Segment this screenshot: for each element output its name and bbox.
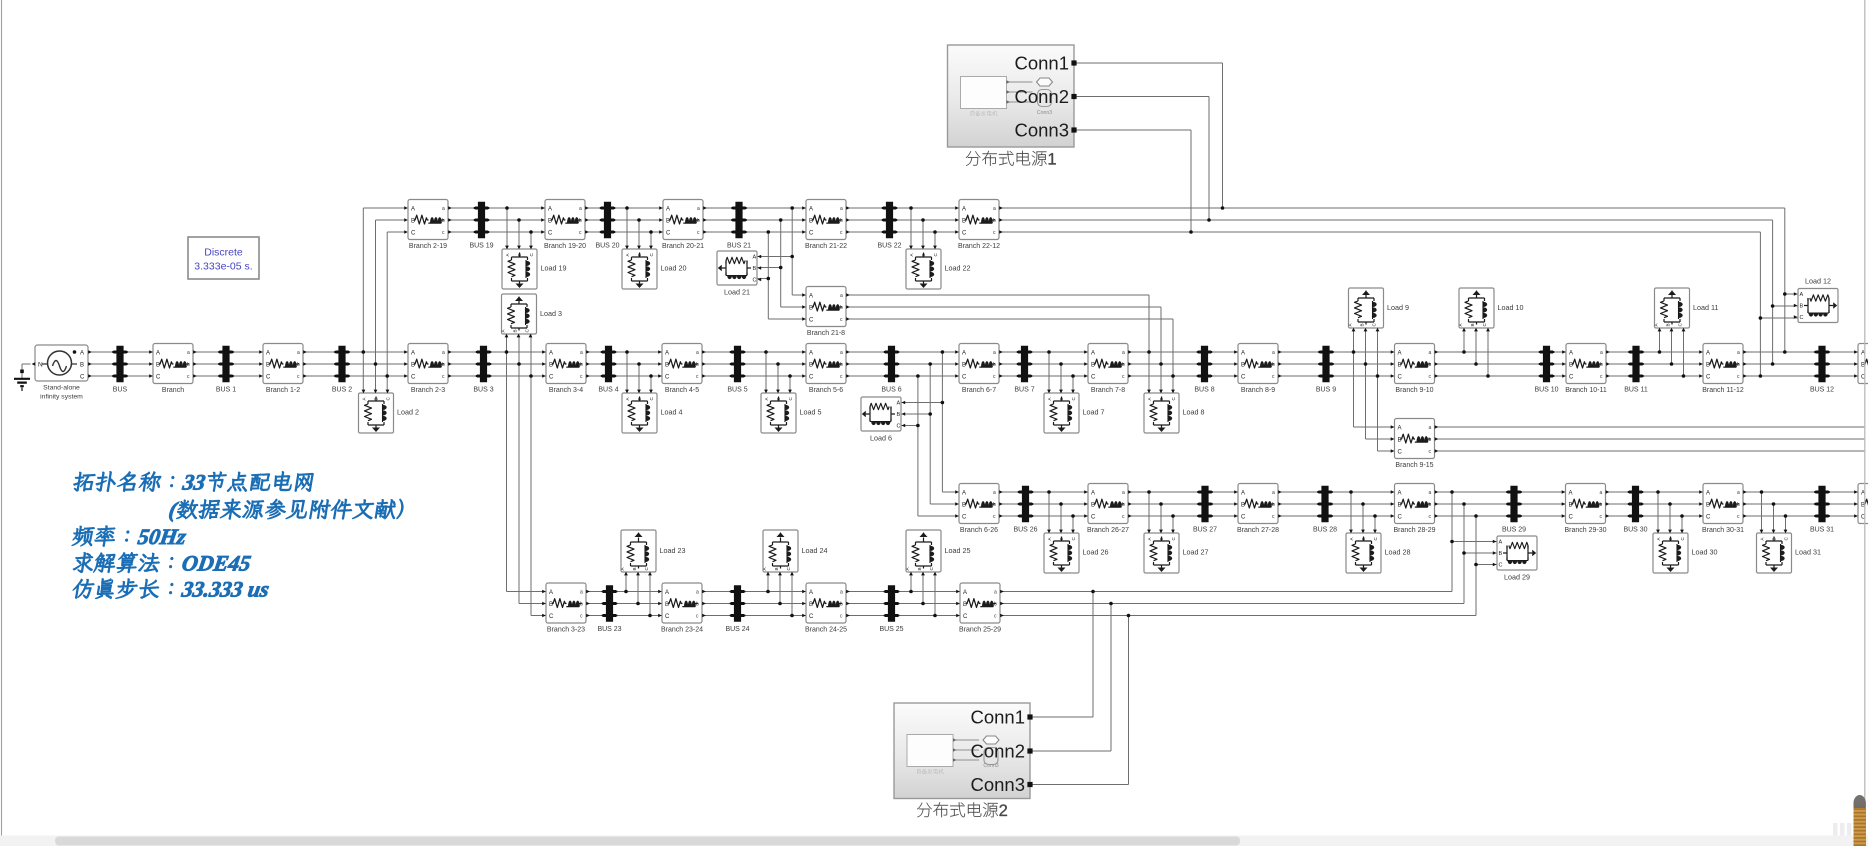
svg-text:A: A [809, 351, 813, 357]
svg-text:A: A [666, 207, 670, 213]
svg-text:A: A [1398, 426, 1402, 432]
svg-text:b: b [697, 218, 700, 224]
svg-text:A: A [962, 207, 966, 213]
svg-text:C: C [1398, 450, 1403, 456]
svg-text:BUS 30: BUS 30 [1623, 526, 1647, 533]
svg-text:Load 7: Load 7 [1083, 408, 1105, 417]
svg-text:A: A [809, 590, 813, 596]
svg-text:A: A [1241, 491, 1245, 497]
svg-text:Load 25: Load 25 [945, 546, 971, 555]
svg-text:b: b [580, 362, 583, 368]
svg-text:a: a [1429, 350, 1432, 356]
svg-text:B: B [80, 363, 84, 369]
svg-text:Load 29: Load 29 [1504, 573, 1530, 582]
svg-text:A: A [1706, 351, 1710, 357]
svg-text:B: B [1800, 304, 1804, 310]
svg-text:A: A [962, 351, 966, 357]
svg-text:Load 26: Load 26 [1083, 548, 1109, 557]
svg-text:Load 19: Load 19 [541, 264, 567, 273]
svg-text:A: A [809, 294, 813, 300]
svg-text:B: B [917, 567, 922, 570]
svg-text:a: a [840, 293, 843, 299]
svg-text:3.333e-05 s.: 3.333e-05 s. [194, 261, 252, 273]
svg-text:b: b [1272, 362, 1275, 368]
svg-text:A: A [897, 401, 901, 407]
svg-text:A: A [1706, 491, 1710, 497]
svg-text:Conn3: Conn3 [1037, 110, 1052, 116]
svg-text:Branch 26-27: Branch 26-27 [1087, 527, 1129, 534]
svg-text:Load 10: Load 10 [1498, 303, 1524, 312]
svg-text:b: b [442, 362, 445, 368]
svg-text:C: C [809, 231, 814, 237]
svg-text:Branch 9-10: Branch 9-10 [1395, 387, 1433, 394]
svg-text:A: A [1499, 540, 1503, 546]
svg-text:A: A [1569, 351, 1573, 357]
svg-text:b: b [696, 362, 699, 368]
svg-text:A: A [1800, 292, 1804, 298]
svg-text:A: A [1091, 351, 1095, 357]
svg-text:B: B [774, 567, 779, 570]
svg-text:Branch 3-4: Branch 3-4 [549, 387, 583, 394]
svg-text:C: C [809, 375, 814, 381]
svg-text:b: b [840, 305, 843, 311]
svg-text:Branch 6-7: Branch 6-7 [962, 387, 996, 394]
svg-text:BUS 24: BUS 24 [725, 626, 749, 633]
svg-text:Load 6: Load 6 [870, 434, 892, 443]
svg-text:B: B [513, 329, 518, 332]
svg-text:b: b [1429, 362, 1432, 368]
svg-text:C: C [962, 231, 967, 237]
svg-text:b: b [696, 602, 699, 608]
svg-text:Branch 25-29: Branch 25-29 [959, 627, 1001, 634]
svg-text:BUS 27: BUS 27 [1193, 526, 1217, 533]
svg-text:A: A [1091, 491, 1095, 497]
svg-text:b: b [840, 602, 843, 608]
svg-text:B: B [1499, 551, 1503, 557]
svg-text:b: b [993, 502, 996, 508]
svg-text:a: a [993, 350, 996, 356]
svg-text:Branch 21-22: Branch 21-22 [805, 243, 847, 250]
svg-text:C: C [80, 375, 85, 381]
svg-text:C: C [1800, 315, 1804, 321]
svg-text:C: C [1398, 515, 1403, 521]
svg-text:B: B [753, 266, 757, 272]
svg-text:Branch 9-15: Branch 9-15 [1395, 462, 1433, 469]
svg-text:a: a [696, 590, 699, 596]
svg-text:B: B [897, 412, 901, 418]
svg-text:BUS 9: BUS 9 [1316, 386, 1336, 393]
svg-text:BUS 2: BUS 2 [332, 386, 352, 393]
svg-text:Conn1: Conn1 [1014, 53, 1069, 74]
svg-text:Branch 23-24: Branch 23-24 [661, 627, 703, 634]
svg-text:Load 5: Load 5 [800, 408, 822, 417]
svg-text:Branch 30-31: Branch 30-31 [1702, 527, 1744, 534]
svg-text:a: a [1272, 350, 1275, 356]
svg-text:BUS 8: BUS 8 [1194, 386, 1214, 393]
svg-text:b: b [994, 602, 997, 608]
svg-text:A: A [549, 590, 553, 596]
svg-text:C: C [809, 614, 814, 620]
svg-text:b: b [1122, 362, 1125, 368]
svg-text:A: A [1241, 351, 1245, 357]
svg-text:BUS 29: BUS 29 [1502, 526, 1526, 533]
svg-text:b: b [1737, 502, 1740, 508]
svg-text:a: a [1600, 350, 1603, 356]
svg-text:Load 31: Load 31 [1795, 548, 1821, 557]
svg-text:BUS 19: BUS 19 [469, 242, 493, 249]
svg-text:Load 12: Load 12 [1805, 277, 1831, 286]
svg-text:BUS: BUS [113, 386, 128, 393]
svg-text:A: A [156, 351, 160, 357]
svg-text:Conn2: Conn2 [970, 741, 1025, 762]
svg-text:a: a [580, 590, 583, 596]
svg-text:BUS 4: BUS 4 [598, 386, 618, 393]
svg-text:Conn3: Conn3 [970, 774, 1025, 795]
svg-text:N: N [38, 362, 43, 369]
svg-text:A: A [809, 207, 813, 213]
svg-text:BUS 25: BUS 25 [879, 626, 903, 633]
svg-text:a: a [696, 350, 699, 356]
svg-text:Branch 11-12: Branch 11-12 [1702, 387, 1744, 394]
svg-text:Load 22: Load 22 [945, 264, 971, 273]
svg-text:b: b [1272, 502, 1275, 508]
svg-text:BUS 28: BUS 28 [1313, 526, 1337, 533]
svg-text:a: a [442, 206, 445, 212]
svg-text:b: b [1429, 502, 1432, 508]
svg-text:C: C [548, 231, 553, 237]
svg-text:Load 23: Load 23 [660, 546, 686, 555]
svg-text:B: B [632, 567, 637, 570]
svg-text:Branch: Branch [162, 387, 184, 394]
svg-text:Load 4: Load 4 [661, 408, 683, 417]
svg-text:BUS 10: BUS 10 [1534, 386, 1558, 393]
svg-text:C: C [1499, 563, 1503, 569]
svg-text:b: b [1600, 362, 1603, 368]
svg-text:BUS 11: BUS 11 [1624, 386, 1648, 393]
svg-text:Branch 2-3: Branch 2-3 [411, 387, 445, 394]
svg-text:C: C [962, 375, 967, 381]
svg-text:A: A [1569, 491, 1573, 497]
svg-text:a: a [1429, 490, 1432, 496]
svg-text:BUS 3: BUS 3 [473, 386, 493, 393]
svg-text:Load 30: Load 30 [1692, 548, 1718, 557]
svg-text:Conn3: Conn3 [983, 763, 998, 769]
svg-text:b: b [1737, 362, 1740, 368]
svg-text:BUS 12: BUS 12 [1810, 386, 1834, 393]
svg-text:A: A [411, 351, 415, 357]
svg-text:BUS 26: BUS 26 [1013, 526, 1037, 533]
svg-text:Branch 29-30: Branch 29-30 [1564, 527, 1606, 534]
svg-text:b: b [579, 218, 582, 224]
svg-text:A: A [962, 491, 966, 497]
svg-text:Branch 24-25: Branch 24-25 [805, 627, 847, 634]
svg-text:b: b [993, 218, 996, 224]
svg-text:b: b [1122, 502, 1125, 508]
svg-text:a: a [994, 590, 997, 596]
svg-text:Branch 7-8: Branch 7-8 [1091, 387, 1125, 394]
svg-text:a: a [1737, 490, 1740, 496]
svg-text:a: a [1272, 490, 1275, 496]
svg-text:BUS 7: BUS 7 [1014, 386, 1034, 393]
svg-text:Branch 10-11: Branch 10-11 [1565, 387, 1607, 394]
svg-text:a: a [1737, 350, 1740, 356]
svg-text:C: C [1091, 515, 1096, 521]
svg-text:Load 27: Load 27 [1183, 548, 1209, 557]
svg-text:Load 2: Load 2 [397, 408, 419, 417]
svg-text:A: A [548, 207, 552, 213]
svg-text:Load 11: Load 11 [1693, 303, 1718, 312]
svg-text:C: C [1241, 515, 1246, 521]
svg-text:C: C [665, 614, 670, 620]
svg-text:C: C [411, 231, 416, 237]
svg-text:C: C [156, 375, 161, 381]
svg-text:a: a [297, 350, 300, 356]
svg-text:Conn1: Conn1 [970, 707, 1025, 728]
svg-text:a: a [442, 350, 445, 356]
svg-text:C: C [549, 375, 554, 381]
svg-text:C: C [1569, 375, 1574, 381]
svg-text:a: a [1600, 490, 1603, 496]
svg-text:Load 9: Load 9 [1387, 303, 1409, 312]
svg-text:a: a [993, 206, 996, 212]
svg-text:A: A [665, 590, 669, 596]
svg-text:Branch 4-5: Branch 4-5 [665, 387, 699, 394]
svg-text:C: C [962, 515, 967, 521]
svg-text:A: A [665, 351, 669, 357]
svg-text:A: A [266, 351, 270, 357]
svg-text:C: C [1569, 515, 1574, 521]
svg-text:A: A [80, 351, 84, 357]
svg-text:Load 21: Load 21 [724, 288, 750, 297]
svg-text:a: a [1122, 350, 1125, 356]
svg-text:C: C [963, 614, 968, 620]
svg-text:Conn2: Conn2 [1014, 86, 1069, 107]
svg-text:C: C [1706, 515, 1711, 521]
svg-text:BUS 21: BUS 21 [727, 242, 751, 249]
svg-text:BUS 5: BUS 5 [727, 386, 747, 393]
svg-text:A: A [1398, 351, 1402, 357]
svg-text:a: a [579, 206, 582, 212]
svg-text:a: a [1429, 425, 1432, 431]
svg-text:A: A [549, 351, 553, 357]
svg-text:Branch 6-26: Branch 6-26 [960, 527, 998, 534]
svg-text:C: C [1091, 375, 1096, 381]
svg-text:a: a [840, 350, 843, 356]
svg-text:BUS 31: BUS 31 [1810, 526, 1834, 533]
svg-text:Load 20: Load 20 [661, 264, 687, 273]
svg-text:BUS 1: BUS 1 [216, 386, 236, 393]
svg-text:Load 28: Load 28 [1385, 548, 1411, 557]
svg-text:Branch 2-19: Branch 2-19 [409, 243, 447, 250]
svg-text:B: B [1666, 323, 1671, 326]
svg-text:Branch 1-2: Branch 1-2 [266, 387, 300, 394]
svg-text:BUS 23: BUS 23 [597, 626, 621, 633]
svg-text:Branch 3-23: Branch 3-23 [547, 627, 585, 634]
svg-text:b: b [840, 218, 843, 224]
svg-text:BUS 6: BUS 6 [881, 386, 901, 393]
svg-text:A: A [411, 207, 415, 213]
svg-text:C: C [897, 424, 901, 430]
svg-text:Branch 21-8: Branch 21-8 [807, 330, 845, 337]
svg-text:C: C [1706, 375, 1711, 381]
svg-text:A: A [753, 255, 757, 261]
svg-text:Branch 28-29: Branch 28-29 [1393, 527, 1435, 534]
svg-text:Load 3: Load 3 [540, 309, 562, 318]
svg-text:b: b [297, 362, 300, 368]
svg-text:C: C [1398, 375, 1403, 381]
svg-text:A: A [1398, 491, 1402, 497]
svg-text:a: a [187, 350, 190, 356]
svg-text:a: a [580, 350, 583, 356]
svg-text:Branch 19-20: Branch 19-20 [544, 243, 586, 250]
svg-text:C: C [753, 278, 757, 284]
svg-text:b: b [580, 602, 583, 608]
svg-text:Stand-alone: Stand-alone [43, 385, 80, 392]
svg-text:b: b [187, 362, 190, 368]
svg-text:Load 8: Load 8 [1183, 408, 1205, 417]
svg-text:b: b [1429, 437, 1432, 443]
svg-text:b: b [442, 218, 445, 224]
svg-text:C: C [411, 375, 416, 381]
svg-text:b: b [840, 362, 843, 368]
svg-text:B: B [1360, 323, 1365, 326]
svg-text:C: C [266, 375, 271, 381]
svg-text:Conn3: Conn3 [1014, 120, 1069, 141]
svg-text:Branch 8-9: Branch 8-9 [1241, 387, 1275, 394]
svg-text:b: b [993, 362, 996, 368]
svg-text:BUS 22: BUS 22 [877, 242, 901, 249]
svg-text:Branch 5-6: Branch 5-6 [809, 387, 843, 394]
svg-text:A: A [963, 590, 967, 596]
svg-text:C: C [809, 318, 814, 324]
svg-text:C: C [549, 614, 554, 620]
svg-text:infinity system: infinity system [40, 394, 83, 401]
svg-text:Discrete: Discrete [204, 247, 243, 259]
svg-text:C: C [665, 375, 670, 381]
svg-text:B: B [1470, 323, 1475, 326]
svg-text:Branch 20-21: Branch 20-21 [662, 243, 704, 250]
svg-text:BUS 20: BUS 20 [595, 242, 619, 249]
svg-text:Branch 22-12: Branch 22-12 [958, 243, 1000, 250]
svg-text:a: a [993, 490, 996, 496]
svg-text:Load 24: Load 24 [802, 546, 828, 555]
svg-text:a: a [840, 206, 843, 212]
svg-text:Branch 27-28: Branch 27-28 [1237, 527, 1279, 534]
svg-text:a: a [840, 590, 843, 596]
svg-text:a: a [697, 206, 700, 212]
svg-text:C: C [1241, 375, 1246, 381]
svg-text:a: a [1122, 490, 1125, 496]
svg-text:C: C [666, 231, 671, 237]
svg-text:b: b [1600, 502, 1603, 508]
